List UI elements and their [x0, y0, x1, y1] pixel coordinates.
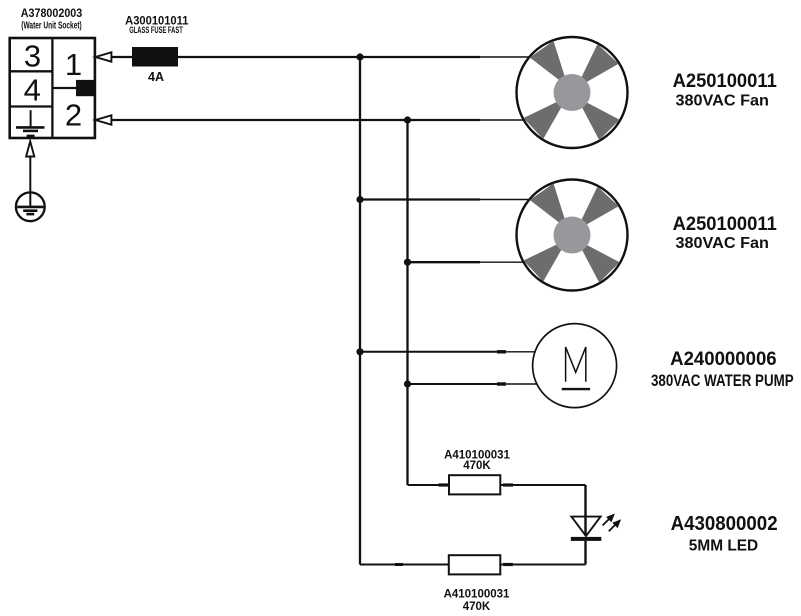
splice mark R2 left [395, 563, 403, 566]
svg-text:A378002003: A378002003 [21, 6, 83, 20]
wire LED anode vertical [584, 485, 586, 536]
splice mark R2 right [503, 563, 513, 566]
node E junction dot [356, 348, 363, 355]
svg-text:A410100031: A410100031 [444, 588, 510, 600]
svg-text:A250100011: A250100011 [673, 70, 777, 92]
fan B2 blade 3 [524, 243, 563, 281]
wire fan1 top lead [480, 56, 531, 58]
resistor R2 body [449, 555, 501, 574]
resistor R1 body [449, 475, 500, 494]
svg-text:4: 4 [24, 72, 41, 107]
svg-text:380VAC WATER PUMP: 380VAC WATER PUMP [651, 372, 794, 390]
svg-text:5MM LED: 5MM LED [689, 538, 758, 555]
svg-text:A430800002: A430800002 [671, 513, 778, 535]
fan motor B2 body [517, 180, 628, 291]
node C junction dot [356, 196, 363, 203]
fan B2 blade 1 [580, 187, 618, 226]
earth symbol in connector cell [16, 110, 45, 136]
wire pump top lead [506, 351, 536, 353]
connector J1 keying black square [76, 80, 95, 96]
splice mark R1 right [503, 483, 513, 486]
wire R2 to LED cathode [500, 564, 585, 566]
wire node F to pump bottom [408, 383, 507, 385]
LED D1 cathode bar [571, 537, 602, 541]
svg-text:2: 2 [65, 98, 82, 133]
wire fuse to node A (L feed) [178, 56, 480, 58]
LED emission arrow 1 [603, 514, 615, 526]
connector J1 right divider 1/2 [52, 87, 77, 89]
fan B2 hub [554, 217, 591, 254]
svg-text:380VAC Fan: 380VAC Fan [676, 93, 769, 110]
svg-text:380VAC Fan: 380VAC Fan [676, 235, 769, 252]
node F junction dot [404, 380, 411, 387]
connector J1 left divider 4/earth [10, 105, 53, 107]
wire node D to fan2 bottom [408, 261, 481, 263]
splice mark pump bottom [497, 382, 506, 385]
wire node E to pump top [360, 351, 506, 353]
fuse F1 body [132, 47, 178, 67]
connector J1 A378002003 outer box [10, 38, 95, 138]
svg-text:4A: 4A [148, 70, 164, 84]
fan motor B1 body [517, 37, 628, 148]
fan B1 blade 2 [530, 41, 566, 82]
wire R1 to LED anode [500, 484, 585, 486]
fan B1 blade 1 [580, 44, 618, 83]
fan B2 blade 4 [581, 244, 620, 283]
svg-text:A250100011: A250100011 [673, 213, 777, 235]
fan B1 hub [554, 74, 591, 111]
fan B2 blade 2 [530, 183, 566, 224]
wire fan2 bottom lead [480, 261, 525, 263]
wire fan1 bottom lead [480, 119, 525, 121]
terminal 2 input arrow [95, 115, 111, 124]
splice mark R1 left [439, 483, 449, 486]
water pump M1 body [533, 324, 617, 408]
svg-text:470K: 470K [463, 460, 491, 472]
node A junction dot [356, 53, 363, 60]
wire trunk L to resistor R2 [360, 564, 449, 566]
wire node C to fan2 top [360, 198, 480, 200]
node D junction dot [404, 259, 411, 266]
LED D1 triangle (anode) [571, 517, 600, 537]
node B junction dot [404, 116, 411, 123]
svg-text:3: 3 [24, 39, 41, 74]
LED emission arrow 2 [609, 519, 621, 531]
wire trunk L vertical [359, 57, 361, 565]
fan B1 blade 4 [581, 101, 620, 140]
connector J1 left divider 3/4 [10, 70, 53, 72]
earth arrow into connector [26, 141, 34, 156]
wire earth lead [29, 156, 31, 192]
wire terminal2 to node B (N feed) [111, 119, 480, 121]
wire LED cathode vertical [584, 541, 586, 565]
wire trunk N vertical [406, 120, 408, 485]
connector J1 center divider [51, 38, 53, 138]
svg-text:GLASS FUSE FAST: GLASS FUSE FAST [129, 25, 183, 35]
svg-text:1: 1 [65, 47, 82, 82]
svg-text:470K: 470K [463, 601, 491, 613]
svg-text:A240000006: A240000006 [670, 348, 777, 370]
water pump M glyph [566, 347, 586, 382]
svg-text:(Water Unit Socket): (Water Unit Socket) [21, 20, 82, 31]
wire pump bottom lead [506, 383, 538, 385]
wire trunk N to resistor R1 [408, 484, 450, 486]
water pump M underline [562, 388, 590, 390]
splice mark pump top [497, 350, 506, 353]
protective earth circle symbol [16, 192, 45, 221]
fan B1 blade 3 [524, 101, 563, 139]
wire fan2 top lead [480, 199, 531, 201]
terminal 1 input arrow [95, 52, 111, 61]
wire arrow1 to fuse [111, 56, 132, 58]
